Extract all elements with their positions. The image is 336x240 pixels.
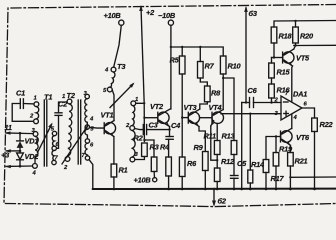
svg-text:VT4: VT4 bbox=[209, 103, 222, 112]
wire R2 bottom to T3 pin3 bbox=[135, 157, 144, 160]
svg-text:R11: R11 bbox=[204, 132, 216, 141]
capacitor C4 bbox=[166, 121, 180, 139]
wire negative rail y=47 bbox=[171, 47, 223, 56]
resistor R20 bbox=[293, 27, 314, 43]
svg-text:R12: R12 bbox=[221, 157, 235, 166]
svg-text:VT6: VT6 bbox=[296, 133, 310, 142]
resistor R4 bbox=[160, 143, 171, 177]
wire T3 pin1 to R2 column bbox=[136, 103, 145, 141]
terminal +10V bottom bbox=[134, 172, 157, 185]
diode VD2 bbox=[17, 152, 40, 161]
svg-text:R21: R21 bbox=[295, 157, 308, 166]
svg-text:Т3: Т3 bbox=[117, 62, 126, 71]
wire R14 to bus bbox=[249, 183, 251, 189]
terminal arrow b3 (top right) bbox=[244, 6, 258, 103]
svg-text:С3: С3 bbox=[149, 121, 159, 130]
svg-text:R16: R16 bbox=[277, 86, 291, 95]
svg-text:2: 2 bbox=[125, 123, 130, 129]
op-amp DA1 bbox=[274, 90, 308, 122]
resistor R12 bbox=[214, 157, 235, 182]
wire C5 to bus bbox=[233, 178, 235, 189]
wire R5 bottom to R6 bbox=[181, 74, 183, 157]
wire R19 to bus bbox=[275, 166, 277, 189]
wire R10 node to R13 top bbox=[223, 78, 234, 141]
svg-text:R18: R18 bbox=[279, 32, 293, 41]
wire R9 to bus bbox=[204, 171, 206, 190]
wire DA1 output to R22 bbox=[302, 108, 315, 118]
wire VT2 emitter to C4 bbox=[169, 127, 171, 137]
ground bus bbox=[93, 188, 336, 190]
wire R15 column bbox=[271, 58, 273, 64]
svg-text:R22: R22 bbox=[320, 120, 334, 129]
capacitor C6 bbox=[248, 86, 282, 108]
wire VT1 emitter to R1 bbox=[113, 137, 115, 164]
transistor VT6 bbox=[281, 128, 311, 145]
wire R8 bottom to VT3 collector bbox=[200, 102, 208, 109]
resistor R22 bbox=[312, 118, 334, 132]
terminal arrow 11 (left) bbox=[5, 123, 34, 135]
resistor R7 bbox=[198, 62, 215, 79]
transistor VT4 bbox=[209, 103, 224, 126]
wire R12 to bus bbox=[216, 182, 218, 190]
resistor R6 bbox=[179, 157, 197, 177]
wire VT4 emitter branch bbox=[211, 126, 217, 160]
wire R13 to C5 bbox=[233, 155, 235, 176]
svg-text:1: 1 bbox=[62, 94, 65, 100]
transformer T3 bbox=[103, 62, 139, 162]
svg-text:С4: С4 bbox=[171, 121, 180, 130]
wire C4 to R4 bbox=[168, 139, 170, 157]
wire R6 to bus bbox=[181, 177, 183, 190]
svg-text:R6: R6 bbox=[187, 159, 197, 168]
resistor R9 bbox=[194, 143, 209, 171]
wire R19 column bbox=[275, 137, 277, 153]
wire to VD1 bbox=[19, 133, 21, 141]
svg-text:2: 2 bbox=[29, 114, 34, 120]
transformer T2 bbox=[62, 91, 94, 171]
wire R5 top to rail bbox=[181, 47, 183, 56]
svg-text:11: 11 bbox=[5, 123, 12, 132]
svg-text:+10В: +10В bbox=[134, 176, 152, 185]
resistor R13 bbox=[222, 132, 237, 155]
wire VT2 base bbox=[144, 117, 157, 119]
svg-text:2: 2 bbox=[63, 165, 68, 171]
svg-text:VT5: VT5 bbox=[296, 54, 310, 63]
diode VD1 bbox=[17, 137, 39, 148]
svg-text:VT2: VT2 bbox=[150, 102, 164, 111]
capacitor C1 tank loop bbox=[12, 89, 34, 122]
transistor VT3 bbox=[184, 103, 200, 127]
svg-text:VD2: VD2 bbox=[25, 152, 40, 161]
terminal -10V top bbox=[158, 11, 176, 25]
wire R4 to bus bbox=[168, 176, 170, 189]
resistor R10 bbox=[220, 56, 241, 74]
svg-text:б3: б3 bbox=[249, 9, 258, 18]
svg-text:VD1: VD1 bbox=[25, 137, 39, 146]
resistor R14 bbox=[248, 160, 264, 183]
wire VT3 emitter to R9 bbox=[199, 127, 205, 152]
svg-text:R4: R4 bbox=[160, 143, 169, 152]
svg-text:VT3: VT3 bbox=[184, 103, 198, 112]
svg-text:С6: С6 bbox=[248, 86, 258, 95]
wire +10V to T3 pin 4 bbox=[114, 25, 122, 67]
resistor R19 bbox=[273, 145, 293, 167]
svg-text:4: 4 bbox=[32, 171, 37, 177]
transformer T1 bbox=[29, 93, 60, 177]
resistor R5 bbox=[170, 56, 186, 75]
svg-text:2: 2 bbox=[274, 98, 279, 104]
wire R14 column bbox=[249, 114, 251, 170]
resistor R2 bbox=[134, 134, 148, 157]
wire VT6 base to R17 bbox=[266, 137, 281, 160]
wire op-amp pin3 net bbox=[221, 113, 281, 115]
wire VT3 base from R5/R6 divider bbox=[182, 117, 188, 119]
wire R17 to bus bbox=[265, 173, 267, 190]
resistor R18 bbox=[271, 27, 292, 43]
resistor R8 bbox=[205, 86, 222, 102]
terminal +10V top bbox=[104, 11, 124, 25]
transistor VT5 bbox=[283, 49, 310, 66]
svg-text:R2: R2 bbox=[134, 134, 144, 143]
svg-text:R15: R15 bbox=[277, 68, 291, 77]
wire T2 pin5 to VT1 base bbox=[90, 126, 105, 129]
capacitor C2 bbox=[55, 100, 68, 149]
terminal arrow 4 (left, to T1 pin 4) bbox=[5, 165, 33, 168]
svg-text:+3: +3 bbox=[1, 151, 10, 160]
wire VT5 collector to rail 2 bbox=[294, 43, 296, 49]
wire R22 to bus bbox=[314, 132, 316, 190]
T2 tuning arrow bbox=[62, 125, 89, 165]
capacitor C5 bbox=[231, 159, 248, 178]
svg-text:+10В: +10В bbox=[104, 11, 122, 20]
transistor VT2 bbox=[150, 102, 171, 127]
T1 tuning arrow bbox=[38, 123, 53, 153]
wire T3 pin5 to VT1 collector bbox=[112, 90, 114, 121]
svg-text:С1: С1 bbox=[16, 89, 25, 98]
wire VT3/VT4 base link bbox=[200, 117, 212, 119]
svg-text:VT1: VT1 bbox=[101, 111, 114, 120]
wire R16 to pin2 net bbox=[271, 98, 273, 103]
svg-text:4: 4 bbox=[293, 115, 298, 121]
wire pin2 net / C6 bbox=[242, 102, 250, 104]
wire R18 bottom to VT5 base bbox=[273, 43, 275, 58]
svg-text:−10В: −10В bbox=[158, 11, 176, 20]
wire T3 pin2 to C3 bbox=[135, 129, 144, 130]
svg-text:4: 4 bbox=[104, 68, 109, 74]
svg-text:1: 1 bbox=[135, 97, 138, 103]
wire VT5 base bbox=[272, 57, 283, 59]
wire R21 bottom node to right edge and bus bbox=[289, 166, 291, 189]
svg-text:R3: R3 bbox=[150, 143, 160, 152]
svg-text:R10: R10 bbox=[228, 62, 242, 71]
terminal arrow +3 (left) bbox=[1, 149, 20, 159]
wire VT4 bottom to R11 bbox=[216, 124, 218, 141]
wire R11 to R12 bbox=[216, 155, 218, 169]
svg-text:1: 1 bbox=[34, 96, 37, 102]
svg-text:R17: R17 bbox=[271, 174, 285, 183]
svg-text:Т2: Т2 bbox=[67, 91, 76, 100]
svg-text:R7: R7 bbox=[205, 62, 215, 71]
svg-text:R5: R5 bbox=[170, 56, 180, 65]
wire VD1-VD2 junction bbox=[19, 148, 21, 153]
resistor R17 bbox=[263, 160, 284, 184]
wire R7 top to rail bbox=[199, 47, 201, 62]
svg-text:б2: б2 bbox=[218, 197, 227, 206]
svg-text:4: 4 bbox=[89, 117, 94, 123]
transistor VT1 bbox=[101, 111, 116, 137]
resistor R1 bbox=[111, 164, 128, 177]
svg-text:Т1: Т1 bbox=[44, 93, 52, 102]
terminal arrow +2 (top) bbox=[139, 5, 155, 103]
terminal arrow b2 (bottom) bbox=[212, 188, 227, 207]
wire -10V down to rail and VT2 collector bbox=[170, 25, 172, 109]
wire VD2 to line 4 bbox=[19, 160, 21, 166]
resistor R16 bbox=[269, 84, 291, 98]
T3 tuning arrow bbox=[110, 83, 135, 108]
svg-text:R1: R1 bbox=[119, 166, 128, 175]
wire VT6 emitter to R21 bbox=[289, 145, 291, 152]
svg-text:R8: R8 bbox=[211, 89, 221, 98]
wire rail 2 to right edge bbox=[294, 44, 336, 46]
wire R7 bottom to R8 bbox=[200, 78, 207, 86]
wire R15 to R16 bbox=[271, 78, 273, 84]
resistor R3 bbox=[150, 143, 160, 172]
resistor R11 bbox=[204, 132, 221, 155]
svg-text:R9: R9 bbox=[194, 143, 204, 152]
wire positive rail top right bbox=[274, 21, 336, 28]
svg-text:+2: +2 bbox=[146, 8, 155, 17]
resistor R15 bbox=[269, 63, 291, 78]
capacitor C3 bbox=[143, 121, 169, 135]
resistor R21 bbox=[288, 153, 308, 167]
wire R1 to bus bbox=[113, 177, 115, 189]
wire R10 bottom node bbox=[222, 74, 224, 110]
wire R2 top to R3 top bbox=[144, 140, 154, 157]
wire T2 pin7 to bus bbox=[89, 160, 93, 189]
svg-text:DA1: DA1 bbox=[293, 90, 307, 99]
wire DA1 pin4 to VT6 collector bbox=[291, 115, 293, 129]
svg-text:R13: R13 bbox=[222, 132, 236, 141]
wire VT5 emitter to DA1 pin7 bbox=[291, 66, 294, 102]
svg-text:R20: R20 bbox=[300, 32, 314, 41]
svg-text:R14: R14 bbox=[251, 160, 264, 169]
